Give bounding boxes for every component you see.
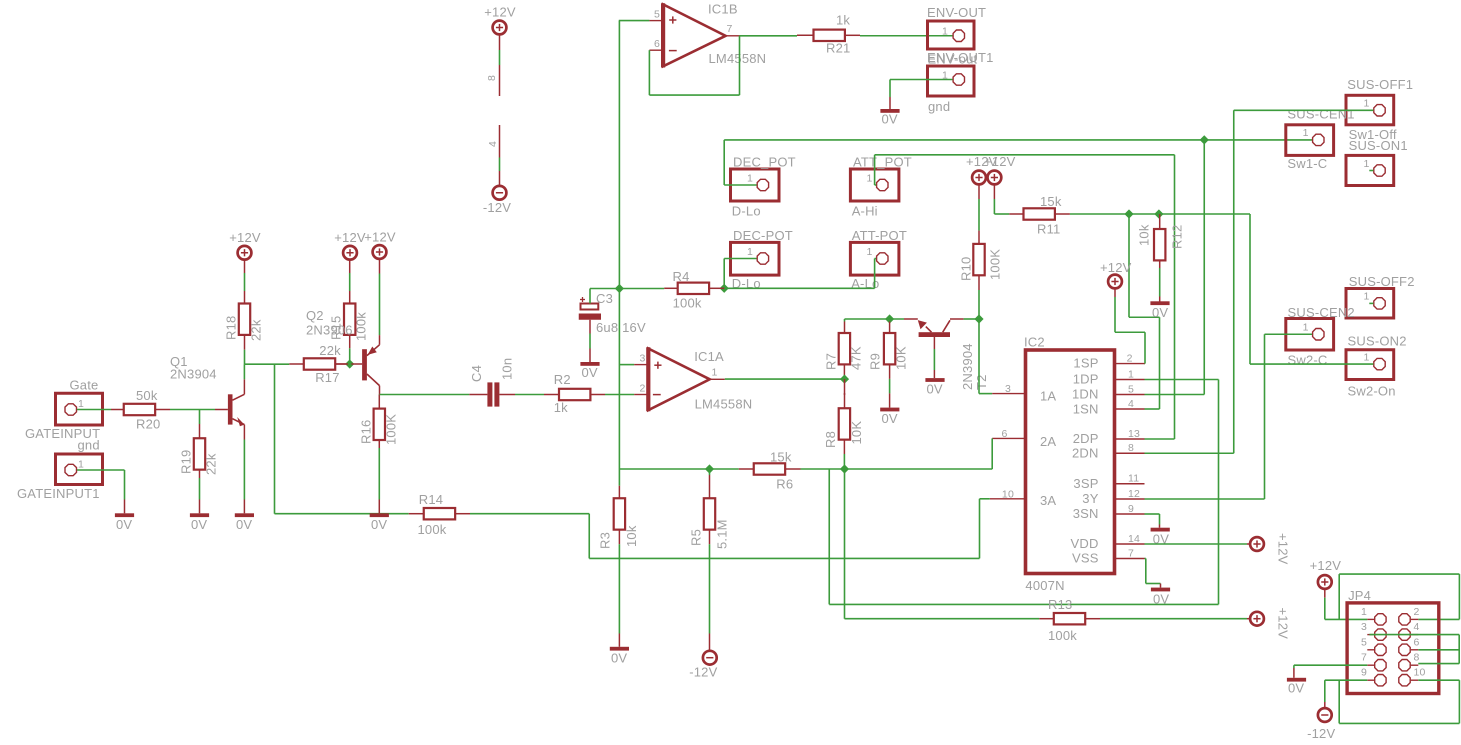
svg-text:1: 1 — [78, 398, 84, 410]
IC2 pin 12 (3Y) — [1115, 488, 1145, 500]
wire -12V to JP4 pin 9 — [1325, 680, 1368, 708]
ground 0V (Q1 emitter) — [235, 513, 254, 532]
wire C3 to ground — [589, 320, 591, 362]
svg-text:R2: R2 — [554, 372, 571, 387]
wire C3 top — [589, 289, 591, 304]
ground 0V (R9) — [880, 408, 899, 426]
junction — [720, 284, 729, 293]
connector ENV-OUT1 (gnd) — [927, 50, 994, 114]
svg-text:GATEINPUT1: GATEINPUT1 — [17, 486, 100, 501]
svg-text:LM4558N: LM4558N — [695, 397, 753, 412]
wire Q2 collector down — [379, 386, 381, 395]
svg-text:R10: R10 — [959, 257, 974, 281]
wire JP4 pins 3/4/6/8 bracket — [1369, 635, 1459, 664]
wire pin14 to +12V — [1145, 543, 1251, 545]
ground 0V (IC2 pin9) — [1151, 528, 1170, 547]
wire stub SUS-ON1 — [1369, 170, 1373, 172]
svg-text:10: 10 — [1414, 667, 1426, 679]
svg-text:SUS-ON1: SUS-ON1 — [1349, 138, 1408, 153]
Q1 base stub — [215, 409, 228, 411]
wire pin8 right — [1145, 452, 1234, 454]
svg-text:15k: 15k — [1040, 194, 1062, 209]
wire pin2 — [1144, 363, 1147, 365]
resistor R18 22k — [224, 260, 264, 342]
wire T2 base to ground — [933, 337, 935, 378]
power +12V supply (R18) — [229, 230, 261, 260]
wire ENV-OUT1 pin to ground — [890, 80, 953, 98]
wire gate pin to R20 — [77, 409, 111, 411]
svg-text:R11: R11 — [1037, 222, 1060, 237]
svg-text:+12V: +12V — [984, 154, 1016, 169]
svg-text:+12V: +12V — [1100, 260, 1132, 275]
svg-text:1: 1 — [866, 173, 872, 185]
wire R13 to +12V — [1100, 618, 1250, 620]
pin 4 power stub with label 4 — [487, 125, 500, 186]
junction — [840, 374, 849, 383]
svg-text:100K: 100K — [988, 249, 1003, 280]
svg-text:100k: 100k — [1048, 628, 1077, 643]
svg-text:3: 3 — [1005, 383, 1011, 395]
svg-text:DEC_POT: DEC_POT — [733, 155, 796, 170]
T2 collector to R10 node — [950, 318, 979, 320]
wire pin9 to ground — [1145, 514, 1160, 528]
wire R12 to ground — [1159, 260, 1161, 301]
power +12V supply symbol (op-amp rail) — [484, 5, 516, 35]
svg-text:Q2: Q2 — [306, 308, 324, 323]
svg-text:1: 1 — [1128, 368, 1134, 380]
svg-text:R13: R13 — [1048, 597, 1072, 612]
resistor R3 10k — [598, 469, 640, 549]
svg-text:JP4: JP4 — [1348, 588, 1371, 603]
IC IC2 4007N — [1024, 335, 1115, 594]
svg-text:Sw1-C: Sw1-C — [1287, 156, 1327, 171]
svg-text:SUS-CEN2: SUS-CEN2 — [1288, 305, 1355, 320]
IC1A pin 2 stub — [634, 394, 648, 396]
svg-text:10n: 10n — [500, 358, 515, 380]
svg-text:4: 4 — [1128, 398, 1134, 410]
wire junction down to IC2 pin 5 — [1203, 140, 1205, 395]
connector SUS-CEN2 — [1286, 305, 1355, 368]
ground 0V (R3) — [610, 647, 629, 666]
resistor R20 50k — [111, 388, 170, 432]
ground 0V (ENV-OUT1) — [880, 97, 899, 127]
IC1B pin 6 stub — [649, 49, 663, 51]
ground 0V (IC2 pin7) — [1151, 588, 1170, 607]
svg-text:7: 7 — [1361, 652, 1367, 664]
capacitor C4 10n — [469, 358, 515, 407]
wire R6 node to IC2 pin 1 — [829, 380, 1218, 605]
svg-text:1: 1 — [1303, 127, 1309, 139]
power +12V supply (R15) — [334, 230, 366, 260]
resistor R10 100K — [959, 244, 1003, 281]
wire pin12 right — [1145, 498, 1265, 500]
wire ATT_POT to IC2 pin 13 — [875, 155, 1175, 439]
svg-text:-12V: -12V — [689, 665, 717, 680]
wire IC1A output to R7/R8 node — [725, 378, 845, 380]
wire +12V to R10 — [978, 184, 980, 244]
wire R18 down — [244, 335, 246, 364]
svg-text:2DN: 2DN — [1072, 445, 1099, 460]
svg-text:1A: 1A — [1040, 389, 1056, 404]
svg-text:R4: R4 — [673, 269, 690, 284]
svg-text:22k: 22k — [204, 453, 219, 475]
svg-text:0V: 0V — [882, 112, 898, 127]
wire R6 to IC2 pin6 corner — [801, 468, 993, 470]
resistor R5 5.1M — [689, 469, 730, 549]
svg-text:1: 1 — [747, 246, 753, 258]
feedback wire IC1B pin6 to pin7 — [649, 36, 739, 95]
svg-text:2: 2 — [1414, 606, 1420, 618]
svg-text:3SP: 3SP — [1073, 476, 1098, 491]
wire node down to R14 — [275, 364, 409, 514]
svg-text:1: 1 — [866, 246, 872, 258]
svg-text:+12V: +12V — [229, 230, 261, 245]
svg-text:11: 11 — [1128, 473, 1139, 485]
svg-text:8: 8 — [486, 75, 498, 81]
svg-text:Sw2-On: Sw2-On — [1348, 384, 1396, 399]
svg-text:0V: 0V — [1152, 305, 1168, 320]
power -12V supply (JP4) — [1307, 708, 1335, 741]
wire C3 to R4 — [590, 288, 664, 290]
resistor R17 22k — [289, 343, 346, 385]
wire to Q2 base — [335, 363, 362, 365]
connector ATT-POT — [850, 228, 907, 291]
svg-text:1: 1 — [747, 173, 753, 185]
svg-text:50k: 50k — [136, 388, 158, 403]
IC1A pin 1 output stub — [710, 378, 725, 380]
svg-text:R9: R9 — [868, 353, 883, 370]
svg-text:0V: 0V — [582, 365, 598, 380]
wire R20 to Q1 base — [170, 409, 215, 411]
power +12V supply (IC2 pin2) — [1100, 260, 1132, 288]
IC2 pin 9 (3SN) — [1115, 503, 1145, 515]
wire R19 to ground — [199, 470, 201, 514]
op-amp IC1A (LM4558N) — [639, 347, 752, 411]
svg-text:0V: 0V — [371, 517, 387, 532]
connector GATEINPUT1 (gnd) — [17, 438, 103, 502]
connector JP4 header — [1347, 588, 1439, 694]
junction — [1124, 209, 1133, 218]
svg-text:7: 7 — [1128, 547, 1134, 559]
IC2 pin 4 (1SN) — [1115, 398, 1145, 410]
wire R14 to IC2 pin 10 — [470, 499, 980, 559]
connector SUS-ON1 — [1346, 138, 1408, 186]
wire DEC-POT pin down — [724, 259, 756, 289]
wire R10 to T2 node — [978, 275, 980, 319]
resistor R21 1k — [797, 13, 860, 56]
IC2 pin 11 (3SP) unconnected — [1115, 473, 1145, 485]
svg-text:R20: R20 — [136, 417, 160, 432]
wire ATT-POT pin down — [875, 259, 877, 289]
junction — [345, 359, 354, 368]
ground 0V (R16) — [370, 513, 389, 532]
svg-text:A-Hi: A-Hi — [852, 204, 878, 219]
ground 0V (R12) — [1150, 301, 1169, 320]
svg-text:D-Lo: D-Lo — [732, 204, 761, 219]
svg-text:gnd: gnd — [78, 438, 100, 453]
svg-text:C3: C3 — [596, 291, 613, 306]
svg-text:R19: R19 — [179, 450, 194, 474]
connector SUS-ON2 — [1346, 334, 1407, 399]
svg-text:gnd: gnd — [928, 99, 950, 114]
svg-text:4: 4 — [487, 141, 499, 147]
svg-text:R3: R3 — [598, 532, 613, 549]
svg-text:ENV-out: ENV-out — [928, 52, 978, 67]
power +12V supply (JP4) — [1310, 558, 1342, 589]
svg-text:0V: 0V — [1153, 592, 1169, 607]
wire R7/R9/T2 emitter node — [845, 318, 905, 320]
svg-text:6u8 16V: 6u8 16V — [596, 320, 646, 335]
svg-text:1: 1 — [1303, 322, 1309, 334]
junction — [885, 314, 894, 323]
svg-text:R8: R8 — [823, 431, 838, 448]
junction — [1154, 209, 1163, 218]
wire R18/Q1 node to R17 — [244, 363, 289, 365]
IC2 pin 7 (VSS) — [1115, 547, 1145, 559]
power -12V supply symbol — [483, 186, 511, 215]
IC2 pin 3 (1A) — [992, 383, 1025, 395]
svg-text:SUS-CEN1: SUS-CEN1 — [1287, 107, 1354, 122]
svg-text:R17: R17 — [315, 370, 339, 385]
power +12V supply (Q2) — [364, 230, 396, 259]
ground 0V (C3) — [580, 362, 599, 380]
svg-text:6: 6 — [1001, 428, 1007, 440]
svg-text:+12V: +12V — [1310, 558, 1342, 573]
wire R11 to SUS-ON2 net — [1070, 214, 1250, 364]
wire feedback node left segment — [619, 468, 738, 470]
svg-text:100k: 100k — [418, 522, 447, 537]
svg-text:1: 1 — [78, 459, 84, 471]
wire +12V to R11 — [994, 184, 1009, 214]
power +12V supply (R13) — [1250, 608, 1290, 640]
svg-text:22k: 22k — [249, 319, 264, 341]
wire into IC1A pin 3 — [619, 364, 648, 366]
svg-text:9: 9 — [1128, 503, 1134, 515]
svg-text:9: 9 — [1361, 667, 1367, 679]
svg-text:DEC-POT: DEC-POT — [733, 228, 793, 243]
svg-text:SUS-ON2: SUS-ON2 — [1348, 334, 1407, 349]
svg-text:10K: 10K — [849, 421, 864, 445]
power -12V supply (R5) — [689, 651, 717, 680]
C4 right lead to R2 — [499, 394, 544, 396]
wire pin13 right — [1145, 438, 1175, 440]
svg-text:10k: 10k — [1137, 224, 1152, 246]
wire gnd pin to ground — [77, 470, 125, 513]
wire pin5 right — [1145, 394, 1205, 396]
svg-text:4: 4 — [1414, 621, 1420, 633]
svg-text:1: 1 — [1363, 352, 1369, 364]
svg-text:2N3904: 2N3904 — [960, 343, 975, 390]
svg-text:5: 5 — [1361, 636, 1367, 648]
wire loop JP4 pin 10 to -12V net — [1339, 680, 1459, 723]
resistor R14 100k — [409, 492, 470, 537]
svg-text:SUS-OFF2: SUS-OFF2 — [1349, 274, 1415, 289]
svg-text:3: 3 — [1361, 621, 1367, 633]
svg-text:100k: 100k — [673, 296, 702, 311]
svg-text:R5: R5 — [689, 529, 704, 546]
resistor R6 15k — [739, 450, 801, 492]
wire R15 down — [349, 335, 351, 364]
svg-text:1DN: 1DN — [1072, 387, 1099, 402]
IC2 pin 6 (2A) — [992, 428, 1025, 440]
transistor T2 2N3904 NPN — [918, 320, 989, 390]
svg-text:0V: 0V — [116, 517, 132, 532]
svg-text:2N3904: 2N3904 — [170, 367, 217, 382]
wire IC1B output to R21 — [740, 35, 798, 37]
power +12V supply pair — [966, 154, 1016, 184]
resistor R7 47K — [824, 319, 864, 370]
svg-text:3SN: 3SN — [1073, 506, 1099, 521]
svg-text:R14: R14 — [419, 492, 443, 507]
svg-text:IC1B: IC1B — [708, 2, 738, 17]
svg-text:+12V: +12V — [1276, 533, 1291, 565]
junction — [1200, 135, 1209, 144]
svg-text:R18: R18 — [224, 316, 239, 340]
svg-text:C4: C4 — [469, 365, 484, 382]
svg-text:3A: 3A — [1040, 493, 1056, 508]
svg-text:-12V: -12V — [483, 200, 511, 215]
svg-text:2: 2 — [639, 382, 645, 394]
svg-text:0V: 0V — [611, 651, 627, 666]
wire +12V to IC2 pin 2 — [1115, 288, 1145, 363]
svg-text:1: 1 — [1363, 98, 1369, 110]
wire Q2/R16 node to C4 — [380, 394, 470, 396]
svg-text:2A: 2A — [1040, 434, 1056, 449]
wire vertical net pin5/pin3/feedback node — [618, 21, 620, 469]
op-amp IC1B (LM4558N) — [654, 2, 766, 68]
wire pin10 stub — [980, 498, 990, 500]
wire pin4 right — [1145, 408, 1160, 410]
svg-text:1SP: 1SP — [1073, 356, 1098, 371]
connector DEC_POT — [731, 155, 796, 219]
resistor R19 22k — [179, 410, 219, 476]
connector ATT_POT — [850, 155, 912, 219]
svg-text:3Y: 3Y — [1082, 491, 1098, 506]
wire into IC1B pin 5 — [619, 20, 663, 22]
IC2 pin 1 (1DP) — [1115, 368, 1145, 380]
svg-text:4007N: 4007N — [1025, 578, 1064, 593]
svg-text:+12V: +12V — [364, 230, 396, 245]
wire R9 to ground — [889, 365, 891, 408]
wire node R4 to ATT-POT — [724, 287, 874, 289]
svg-text:13: 13 — [1128, 428, 1140, 440]
svg-text:LM4558N: LM4558N — [709, 51, 767, 66]
connector SUS-OFF1 — [1346, 77, 1413, 142]
wire +12V to Q2 emitter — [379, 259, 381, 345]
wire pin7 to ground — [1145, 559, 1161, 588]
svg-text:R7: R7 — [824, 353, 839, 370]
svg-text:1: 1 — [1361, 606, 1367, 618]
IC1B pin 7 output stub — [726, 35, 740, 37]
wire net DEC_POT to SUS-CEN1 — [724, 139, 1312, 141]
svg-text:+12V: +12V — [484, 5, 516, 20]
svg-text:0V: 0V — [1288, 681, 1304, 696]
wire Q1 emitter to ground — [243, 425, 245, 514]
svg-text:1: 1 — [1363, 291, 1369, 303]
ground 0V (JP4 pin7) — [1287, 678, 1306, 696]
svg-text:IC1A: IC1A — [694, 349, 724, 364]
svg-text:14: 14 — [1128, 533, 1140, 545]
R7 bottom lead — [843, 365, 845, 379]
svg-text:+12V: +12V — [334, 230, 366, 245]
svg-text:T2: T2 — [974, 374, 989, 390]
svg-text:+12V: +12V — [1276, 608, 1291, 640]
ground 0V (R19) — [190, 513, 209, 532]
wire SUS-CEN2 to IC2 pin 12 — [1265, 334, 1313, 499]
svg-text:R12: R12 — [1170, 225, 1185, 249]
wire ATT_POT pin up — [875, 155, 877, 185]
svg-text:VSS: VSS — [1072, 551, 1099, 566]
ground 0V (GATEINPUT1) — [115, 513, 134, 532]
wire IC2 pin6 down to node — [991, 438, 993, 469]
wire R5 to -12V — [709, 530, 711, 651]
svg-text:22k: 22k — [319, 343, 341, 358]
resistor R4 100k — [664, 269, 724, 311]
C4 left lead — [469, 394, 487, 396]
resistor R15 100k — [329, 260, 369, 342]
wire R16 to ground — [378, 440, 380, 513]
svg-text:ATT-POT: ATT-POT — [852, 228, 907, 243]
svg-text:1k: 1k — [836, 13, 850, 28]
svg-text:6: 6 — [654, 38, 660, 50]
svg-text:IC2: IC2 — [1024, 335, 1045, 350]
svg-text:5: 5 — [654, 9, 660, 21]
svg-text:10K: 10K — [894, 346, 909, 370]
svg-text:8: 8 — [1128, 442, 1134, 454]
wire DEC_POT pin up — [724, 140, 756, 185]
IC2 pin 2 (1SP) — [1115, 352, 1145, 364]
wire JP4 pin 7 to ground — [1294, 665, 1367, 678]
svg-text:10: 10 — [1002, 489, 1014, 501]
wire stub SUS-OFF2 — [1369, 302, 1373, 304]
IC2 pin 10 (3A) — [990, 489, 1026, 501]
junction — [705, 464, 714, 473]
svg-text:SUS-OFF1: SUS-OFF1 — [1347, 77, 1413, 92]
resistor R11 15k — [1009, 194, 1070, 237]
connector ENV-OUT — [927, 5, 986, 49]
resistor R8 10K — [823, 379, 864, 448]
svg-text:0V: 0V — [927, 382, 943, 397]
IC2 pin 8 (2DN) — [1115, 442, 1145, 454]
capacitor C3 6u8 16V electrolytic — [579, 291, 646, 335]
svg-text:15k: 15k — [770, 450, 792, 465]
svg-text:2: 2 — [1127, 352, 1133, 364]
T2 emitter lead — [904, 318, 918, 320]
svg-text:R6: R6 — [776, 477, 793, 492]
wire loop JP4 pin1 to pin2 — [1339, 574, 1459, 619]
svg-text:5: 5 — [1128, 383, 1134, 395]
pin 8 power stub with label 8 — [486, 35, 500, 97]
svg-text:8: 8 — [1414, 652, 1420, 664]
wire T2 node to IC2 pin 3 — [979, 319, 992, 394]
IC2 pin 13 (2DP) — [1115, 428, 1145, 440]
wire junction to IC2 pin 4 — [1129, 214, 1160, 409]
svg-text:5.1M: 5.1M — [715, 519, 730, 549]
wire +12V to JP4 pin 1 — [1325, 589, 1368, 620]
connector DEC-POT — [731, 228, 793, 291]
wire R3 to ground — [618, 530, 620, 647]
connector SUS-OFF2 — [1346, 274, 1415, 318]
svg-text:1DP: 1DP — [1073, 372, 1099, 387]
wire node to R13 — [845, 469, 1040, 619]
svg-text:2N3906: 2N3906 — [306, 323, 353, 338]
svg-text:R21: R21 — [826, 41, 850, 56]
resistor R9 10K — [868, 319, 909, 370]
wire SUS-OFF1 to IC2 pin 8 — [1234, 110, 1374, 453]
wire pin1 right — [1145, 379, 1219, 381]
junction — [974, 314, 983, 323]
wire R2 to IC1A pin 2 — [605, 394, 634, 396]
